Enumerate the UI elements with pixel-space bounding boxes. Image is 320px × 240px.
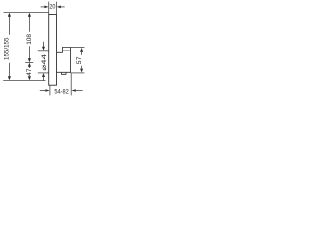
svg-text:20: 20: [49, 3, 55, 10]
svg-text:155/155: 155/155: [4, 37, 11, 60]
svg-text:⌀44: ⌀44: [41, 53, 48, 70]
svg-text:57: 57: [76, 56, 83, 64]
svg-text:47: 47: [26, 68, 33, 76]
svg-text:108: 108: [26, 34, 33, 45]
svg-text:54-82: 54-82: [54, 88, 69, 95]
